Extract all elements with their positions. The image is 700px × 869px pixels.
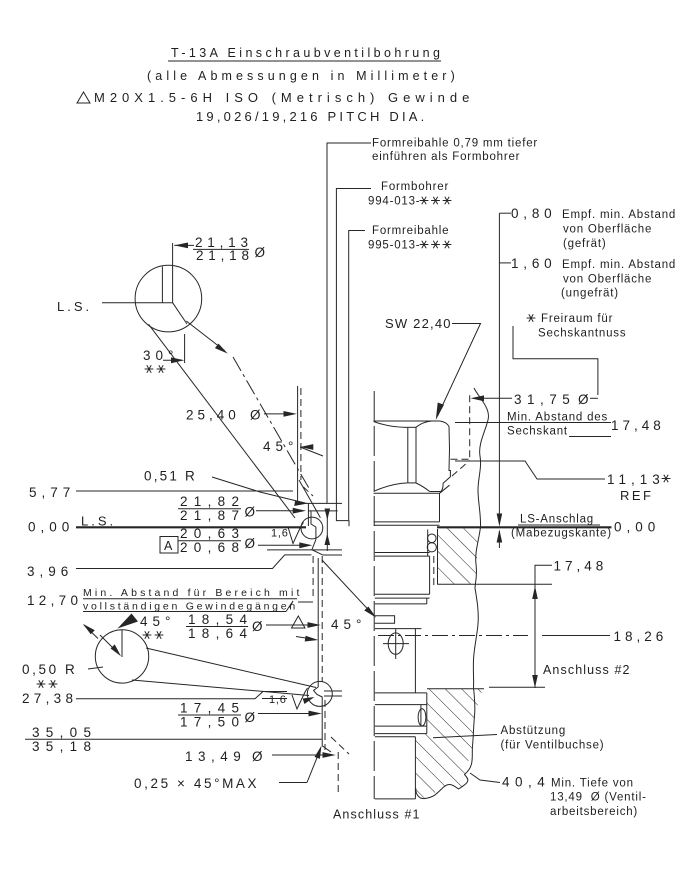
- svg-text:arbeitsbereich): arbeitsbereich): [550, 806, 638, 818]
- svg-text:20,68: 20,68: [180, 540, 245, 555]
- svg-text:(für Ventilbuchse): (für Ventilbuchse): [501, 740, 605, 752]
- svg-text:5,77: 5,77: [29, 485, 75, 500]
- svg-text:31,75: 31,75: [514, 392, 575, 407]
- svg-text:SW 22,40: SW 22,40: [385, 316, 452, 331]
- svg-text:Sechskant: Sechskant: [507, 426, 568, 438]
- svg-text:0,00: 0,00: [614, 520, 660, 535]
- svg-text:Min. Tiefe von: Min. Tiefe von: [551, 778, 634, 790]
- svg-text:21,82: 21,82: [180, 494, 245, 509]
- svg-text:Ø: Ø: [252, 619, 267, 634]
- svg-text:25,40: 25,40: [186, 408, 240, 423]
- svg-text:45°: 45°: [263, 439, 298, 454]
- svg-text:von Oberfläche: von Oberfläche: [563, 274, 652, 286]
- svg-text:T-13A Einschraubventilbohrung: T-13A Einschraubventilbohrung: [171, 46, 443, 60]
- svg-text:Anschluss #2: Anschluss #2: [543, 663, 631, 677]
- svg-text:45°: 45°: [140, 614, 175, 629]
- svg-text:0,80: 0,80: [511, 206, 556, 221]
- svg-text:18,54: 18,54: [188, 612, 253, 627]
- svg-text:35,18: 35,18: [32, 739, 97, 754]
- svg-text:von Oberfläche: von Oberfläche: [563, 224, 652, 236]
- svg-text:Sechskantnuss: Sechskantnuss: [538, 328, 626, 340]
- svg-text:17,45: 17,45: [180, 701, 245, 716]
- svg-text:Min. Abstand des: Min. Abstand des: [507, 412, 608, 424]
- svg-text:Ø: Ø: [578, 392, 593, 407]
- svg-text:0,50 R: 0,50 R: [22, 662, 77, 677]
- svg-text:21,18: 21,18: [196, 248, 254, 263]
- svg-text:Ø: Ø: [245, 505, 260, 520]
- svg-text:Empf. min. Abstand: Empf. min. Abstand: [562, 259, 676, 271]
- svg-text:3,96: 3,96: [27, 564, 73, 579]
- svg-text:M20X1.5-6H ISO (Metrisch) Gewi: M20X1.5-6H ISO (Metrisch) Gewinde: [94, 90, 474, 105]
- svg-text:12,70: 12,70: [27, 593, 82, 608]
- svg-text:13,49 Ø (Ventil-: 13,49 Ø (Ventil-: [550, 792, 647, 804]
- svg-text:1,6: 1,6: [271, 528, 289, 540]
- svg-text:0,51 R: 0,51 R: [144, 469, 197, 484]
- svg-text:1,6: 1,6: [269, 694, 287, 706]
- svg-text:(Mabezugskante): (Mabezugskante): [511, 528, 612, 540]
- svg-text:35,05: 35,05: [32, 725, 97, 740]
- svg-text:45°: 45°: [331, 617, 366, 632]
- svg-text:21,87: 21,87: [180, 508, 245, 523]
- svg-text:Ø: Ø: [250, 408, 265, 423]
- svg-text:Ø: Ø: [245, 536, 260, 551]
- svg-text:17,48: 17,48: [554, 559, 608, 574]
- svg-text:27,38: 27,38: [22, 691, 77, 706]
- svg-text:13,49: 13,49: [185, 749, 246, 764]
- svg-text:A: A: [164, 539, 173, 553]
- svg-text:Empf. min. Abstand: Empf. min. Abstand: [562, 209, 676, 221]
- svg-text:vollständigen Gewindegängen: vollständigen Gewindegängen: [83, 601, 298, 613]
- svg-text:Formreibahle: Formreibahle: [372, 225, 449, 237]
- svg-text:L.S.: L.S.: [57, 299, 92, 314]
- svg-text:19,026/19,216 PITCH DIA.: 19,026/19,216 PITCH DIA.: [196, 109, 427, 124]
- svg-text:0,00: 0,00: [28, 520, 74, 535]
- svg-text:Freiraum für: Freiraum für: [541, 313, 613, 325]
- svg-text:Ø: Ø: [255, 245, 270, 260]
- svg-text:0,25 × 45°MAX: 0,25 × 45°MAX: [134, 776, 259, 791]
- svg-text:40,4: 40,4: [502, 775, 550, 790]
- svg-text:Ø: Ø: [252, 749, 267, 764]
- svg-text:REF: REF: [620, 488, 654, 503]
- svg-text:17,48: 17,48: [611, 418, 665, 433]
- svg-text:17,50: 17,50: [180, 714, 245, 729]
- svg-text:Ø: Ø: [245, 710, 260, 725]
- svg-text:1,60: 1,60: [511, 256, 556, 271]
- svg-text:einführen als Formbohrer: einführen als Formbohrer: [372, 151, 520, 163]
- svg-text:995-013-: 995-013-: [368, 240, 420, 252]
- svg-text:Formreibahle 0,79 mm tiefer: Formreibahle 0,79 mm tiefer: [372, 138, 538, 150]
- svg-text:Anschluss #1: Anschluss #1: [333, 808, 421, 822]
- svg-text:18,64: 18,64: [188, 626, 253, 641]
- svg-text:11,13: 11,13: [607, 472, 665, 487]
- svg-text:Abstützung: Abstützung: [501, 725, 567, 737]
- svg-text:(alle Abmessungen in Millimete: (alle Abmessungen in Millimeter): [147, 69, 459, 83]
- svg-text:Min. Abstand für Bereich mit: Min. Abstand für Bereich mit: [83, 587, 303, 599]
- svg-text:(ungefrät): (ungefrät): [561, 288, 619, 300]
- svg-text:(gefrät): (gefrät): [563, 238, 606, 250]
- svg-text:LS-Anschlag: LS-Anschlag: [520, 514, 594, 526]
- svg-text:Formbohrer: Formbohrer: [381, 181, 449, 193]
- svg-text:18,26: 18,26: [614, 629, 668, 644]
- svg-text:994-013-: 994-013-: [368, 196, 420, 208]
